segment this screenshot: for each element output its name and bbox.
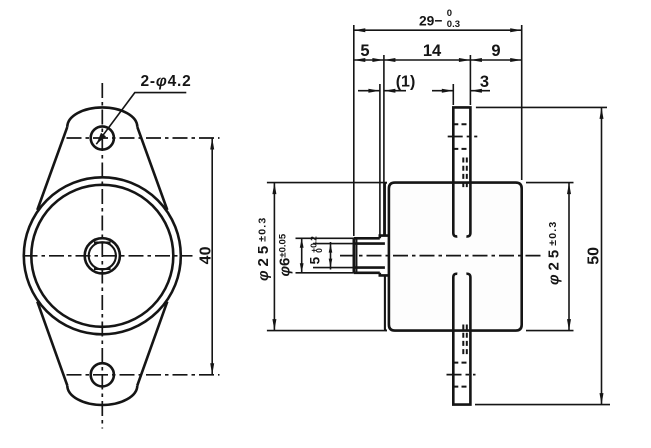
ext line 29 left (353, 25, 355, 236)
ext 50 bottom (475, 404, 610, 406)
svg-text:5: 5 (308, 256, 323, 264)
svg-text:0: 0 (447, 8, 452, 19)
bush outer top (354, 237, 380, 240)
collar outline (380, 236, 389, 276)
ext line at 383.9 (383, 55, 385, 235)
center hole outer (85, 238, 120, 273)
hidden hole bottom: edges (453, 362, 470, 364)
dim 5slot line (330, 242, 332, 270)
ext phi6 bottom (296, 272, 354, 274)
dim phi25L line (273, 183, 275, 331)
ext line 29 right (521, 25, 523, 180)
bush inner bottom (354, 266, 385, 269)
svg-text:9: 9 (491, 42, 500, 60)
center hole flat top (94, 242, 111, 244)
plate slot in rubber lower (453, 274, 457, 331)
ext phi25L bottom (267, 330, 387, 332)
flange edge bottom-left (37, 302, 67, 386)
svg-text:0: 0 (314, 248, 324, 253)
hidden slot bottom verticals (462, 325, 464, 355)
ext phi25R top (526, 182, 574, 184)
dim 40 line (211, 138, 213, 375)
hidden hole top centerline (448, 136, 478, 138)
bottom bolt hole (91, 363, 114, 386)
svg-text:40: 40 (198, 246, 215, 264)
svg-text:50: 50 (586, 247, 603, 265)
flange edge top-left (37, 127, 67, 210)
hidden slot top verticals (462, 158, 464, 188)
top bolt hole (91, 126, 114, 149)
ext line 3 left (452, 84, 454, 105)
ext phi25R bottom (526, 330, 574, 332)
hidden hole top: edges (453, 123, 470, 125)
svg-text:29−: 29− (419, 13, 442, 28)
flange outer circle (24, 177, 181, 334)
top mounting tab cap (67, 107, 137, 127)
svg-text:3: 3 (480, 73, 489, 91)
bush inner top (354, 242, 385, 245)
centerline top hole (67, 137, 220, 139)
flange plate upper part (453, 107, 470, 182)
svg-text:5: 5 (360, 42, 369, 60)
flange edge top-right (137, 127, 167, 210)
ext line at 379.9 (379, 84, 381, 235)
washer face line upper (385, 183, 387, 236)
hidden hole bottom centerline (447, 374, 476, 376)
ext phi6 top (296, 237, 354, 239)
bottom mounting tab cap (67, 386, 137, 406)
svg-text:14: 14 (423, 42, 442, 60)
flange edge bottom-right (137, 302, 167, 386)
dim phi25R line (568, 183, 570, 331)
ext 5slot bottom (313, 267, 354, 269)
dim 29 line (354, 29, 522, 31)
horizontal centerline center (23, 255, 193, 257)
dim phi6 line (301, 238, 303, 272)
dim 3 arrows (432, 90, 453, 92)
centerline bottom hole (67, 374, 220, 376)
bush outer bottom (354, 271, 380, 274)
washer face line lower (385, 275, 387, 330)
svg-text:0.3: 0.3 (447, 19, 460, 30)
flange plate lower part (453, 331, 470, 405)
ext phi25L top (267, 182, 387, 184)
ext 50 top (476, 106, 607, 108)
dim row 5/14/9 line (354, 59, 522, 61)
dim (1) arrows (358, 90, 380, 92)
vertical centerline (101, 83, 103, 429)
ext line at 470 (469, 55, 471, 105)
rubber body circle (31, 185, 173, 327)
ext 5slot top (313, 243, 354, 245)
leader 2-phi4.2 (96, 93, 186, 145)
center hole flat bottom (94, 268, 111, 270)
center hole inner (89, 242, 116, 269)
rubber block (389, 183, 522, 331)
axis centerline (340, 255, 542, 257)
svg-text:(1): (1) (396, 73, 416, 90)
bush end face (352, 238, 355, 272)
plate slot in rubber upper (453, 183, 457, 237)
dim 50 line (601, 107, 603, 404)
svg-text:2-φ4.2: 2-φ4.2 (141, 73, 192, 90)
